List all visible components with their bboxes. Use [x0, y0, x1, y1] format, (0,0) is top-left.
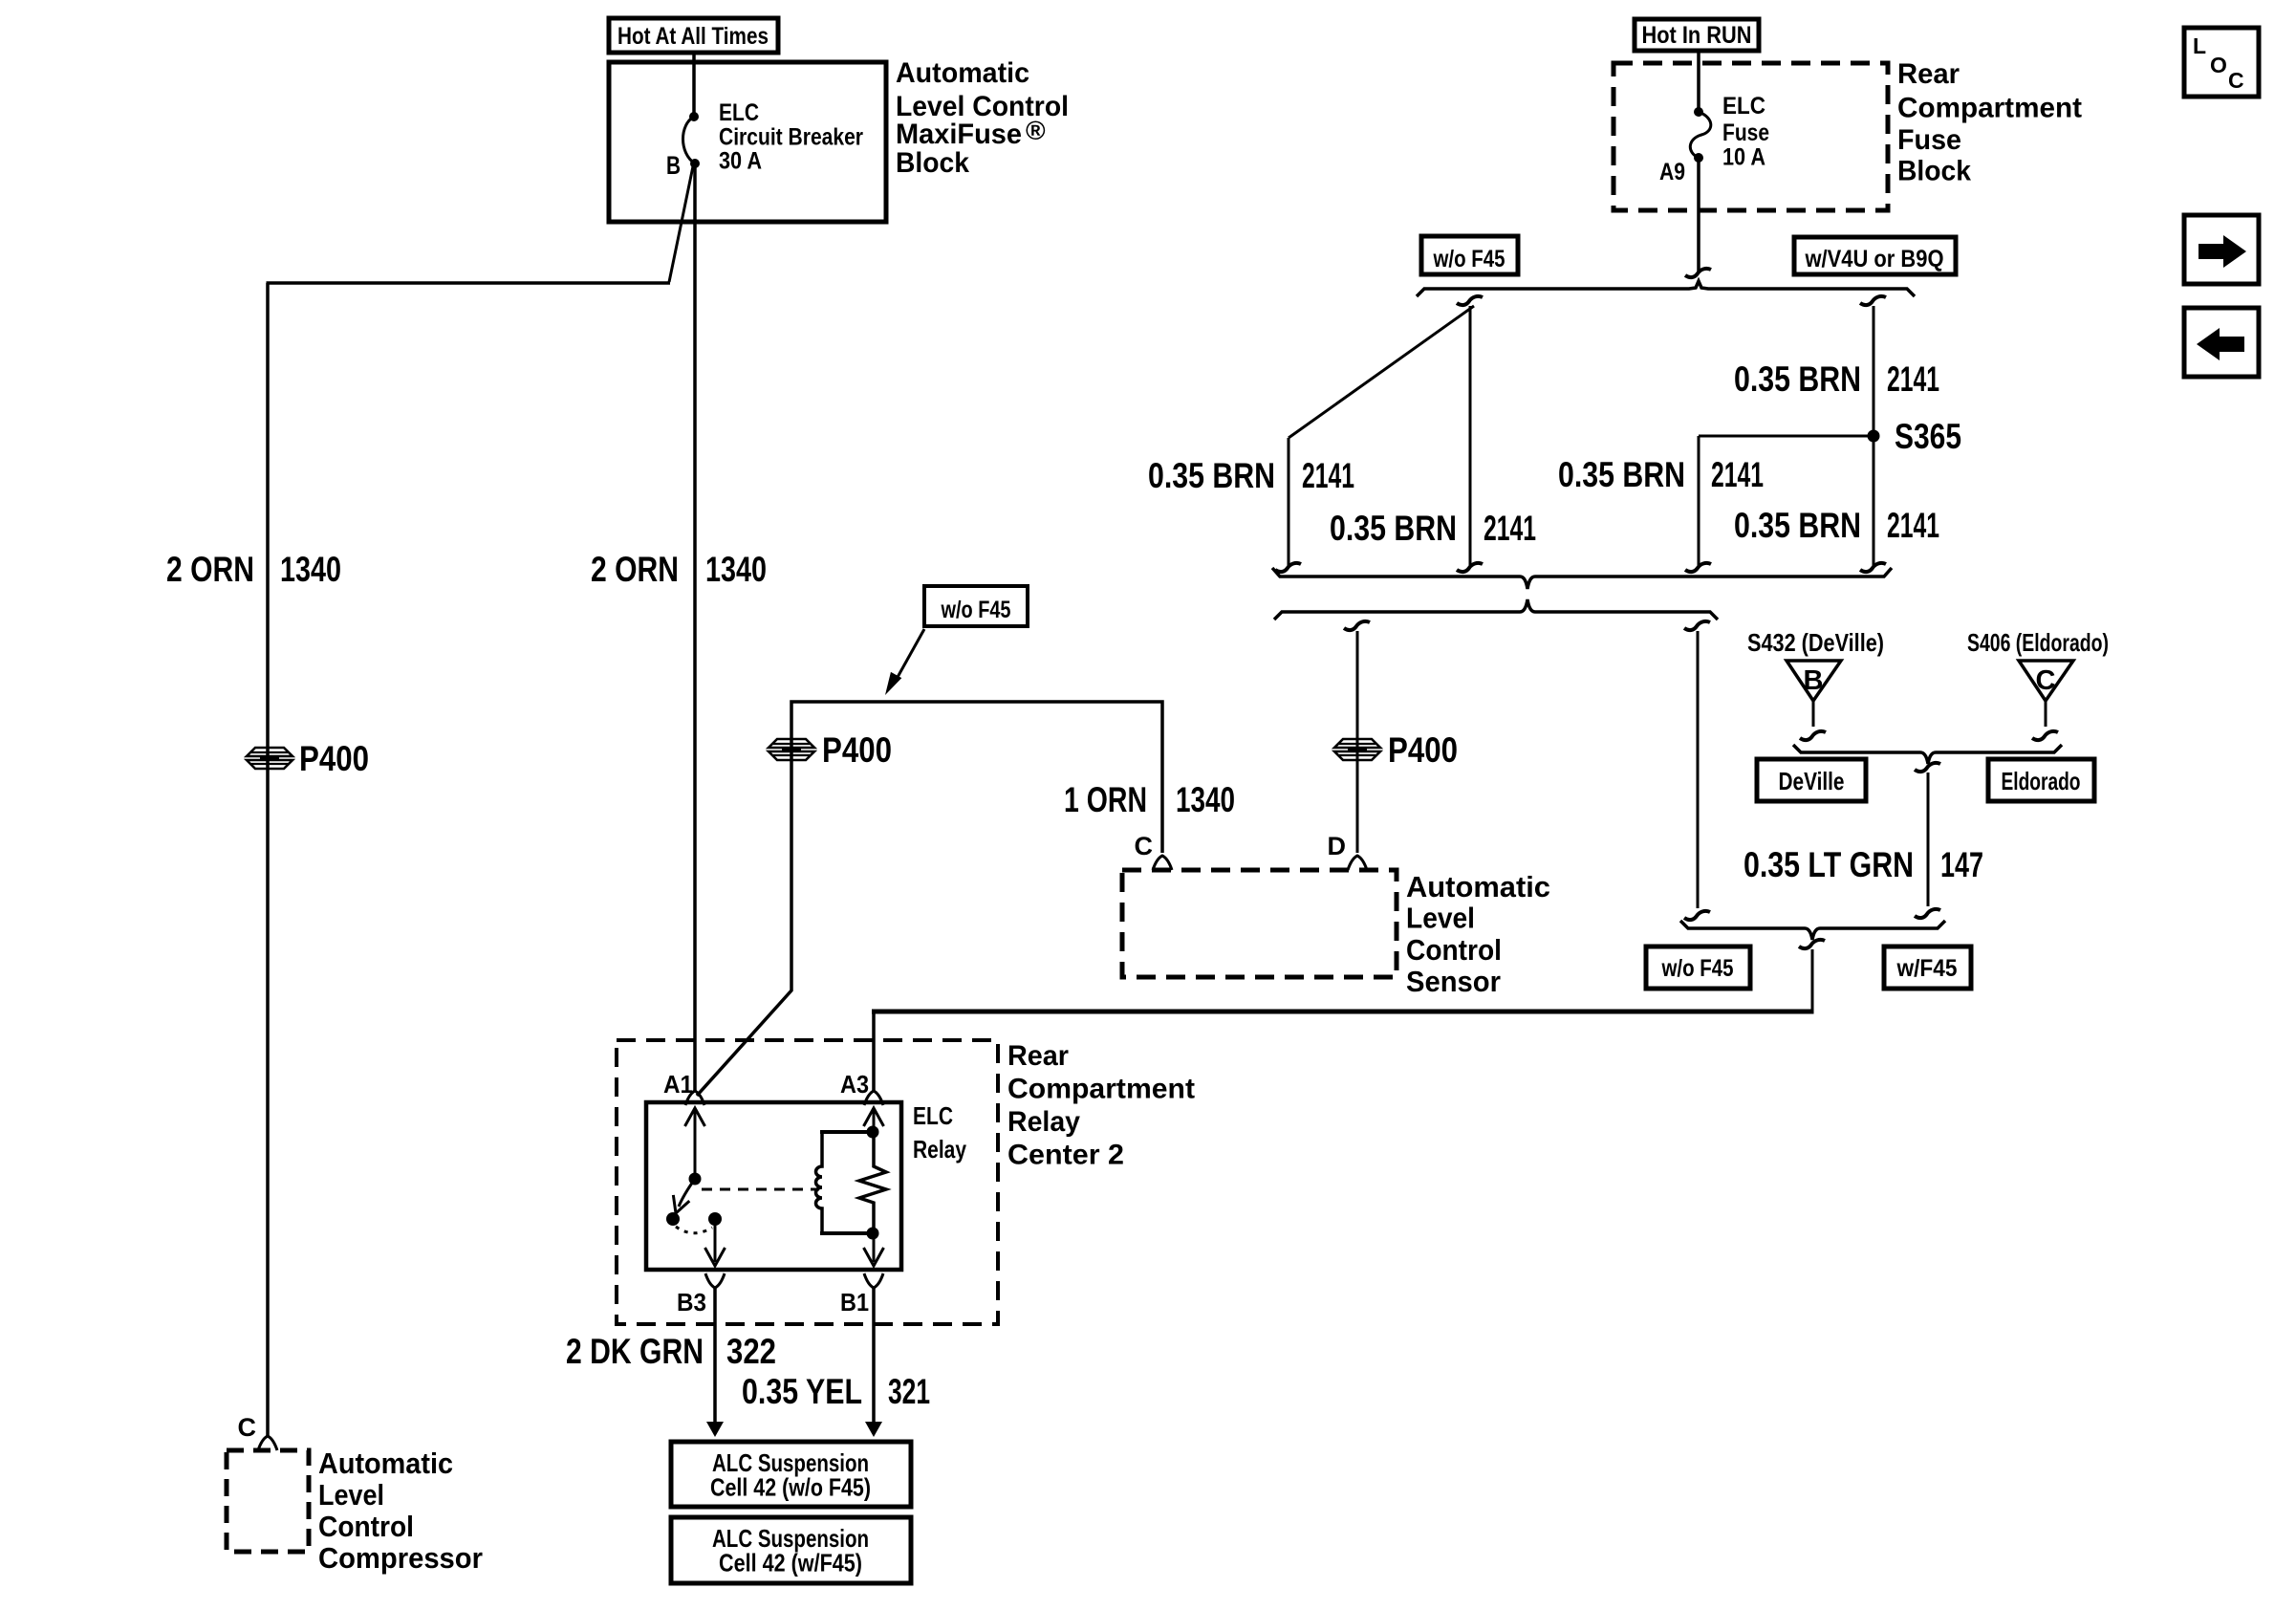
- svg-text:322: 322: [726, 1332, 776, 1371]
- svg-text:Fuse: Fuse: [1722, 120, 1769, 146]
- LOC legend box: [2184, 28, 2259, 97]
- option box w/o F45 (top): [1421, 236, 1518, 274]
- cell box ALC Suspension w/o F45: [671, 1442, 911, 1507]
- wire to sensor pin D: [1356, 631, 1359, 853]
- off-page arrow B1: [865, 1422, 882, 1437]
- svg-text:Compressor: Compressor: [318, 1541, 483, 1575]
- svg-text:2 ORN: 2 ORN: [591, 550, 679, 589]
- svg-text:ELC: ELC: [913, 1101, 953, 1130]
- wire end curl bottom (right option branch): [1684, 911, 1710, 920]
- wire long horizontal to relay A3: [872, 1010, 1814, 1014]
- wire end curl (triangle B): [1800, 731, 1826, 740]
- model box DeVille: [1757, 759, 1866, 801]
- svg-text:0.35 BRN: 0.35 BRN: [1330, 509, 1457, 548]
- nav arrow right: [2199, 235, 2246, 268]
- relay B1 arrowhead: [864, 1248, 884, 1266]
- wire end curl bottom (x1348): [1275, 563, 1301, 572]
- pin socket D (sensor): [1348, 856, 1367, 870]
- svg-text:DeVille: DeVille: [1779, 767, 1845, 795]
- svg-text:P400: P400: [1388, 730, 1458, 770]
- connector P400 on w/o F45 branch: [769, 739, 814, 760]
- wire end curl (triangle C): [2032, 731, 2058, 740]
- svg-text:2141: 2141: [1711, 455, 1764, 494]
- wire down to relay A3: [872, 1012, 876, 1091]
- wire LT GRN: [1927, 772, 1930, 906]
- option box w/V4U or B9Q: [1794, 237, 1956, 274]
- wire left vertical to compressor: [266, 283, 270, 1436]
- wire brown branch 2: [1288, 438, 1290, 566]
- svg-text:w/o F45: w/o F45: [1433, 246, 1505, 272]
- wire horizontal to left compressor branch: [267, 281, 671, 285]
- option box w/F45: [1884, 946, 1971, 989]
- svg-text:Relay: Relay: [913, 1135, 966, 1164]
- relay coil bottom node dot: [867, 1228, 879, 1240]
- svg-text:Compartment: Compartment: [1007, 1074, 1195, 1105]
- svg-text:1340: 1340: [705, 550, 767, 589]
- wire B1 to ALC cell: [872, 1288, 876, 1424]
- wire end curl bottom (lt grn): [1915, 909, 1940, 918]
- arrowhead to wire: [879, 672, 901, 698]
- power label box: Hot At All Times: [609, 18, 778, 53]
- svg-text:ELC: ELC: [1722, 93, 1765, 120]
- connector P400 on sensor wire: [1334, 739, 1380, 760]
- wire end curl bottom (x1960): [1860, 563, 1886, 572]
- svg-text:MaxiFuse: MaxiFuse: [896, 119, 1022, 150]
- relay coil frame bottom: [820, 1231, 874, 1235]
- relay A3 internal lead: [873, 1111, 876, 1132]
- relay A1 internal lead: [694, 1111, 697, 1179]
- wire end curl (right option branch): [1684, 621, 1710, 630]
- wire breaker B down to relay A1: [693, 163, 697, 1091]
- svg-text:L: L: [2193, 33, 2206, 58]
- svg-text:Cell 42 (w/F45): Cell 42 (w/F45): [719, 1549, 862, 1577]
- wire end curl bottom (x1777): [1685, 563, 1711, 572]
- svg-text:0.35 YEL: 0.35 YEL: [742, 1372, 862, 1411]
- wire from Hot At All Times to circuit breaker: [692, 53, 696, 117]
- svg-text:2 DK GRN: 2 DK GRN: [566, 1332, 704, 1371]
- svg-text:2 ORN: 2 ORN: [166, 550, 254, 589]
- svg-text:A1: A1: [663, 1070, 693, 1099]
- off-page arrow B3: [706, 1422, 724, 1437]
- wire brown branch 1: [1469, 306, 1472, 566]
- svg-text:0.35 LT GRN: 0.35 LT GRN: [1744, 845, 1914, 884]
- wire breaker B diagonal to left branch: [669, 166, 693, 282]
- nav box arrow left: [2184, 308, 2259, 377]
- circuit breaker CB element: [683, 117, 696, 163]
- svg-text:B1: B1: [840, 1288, 869, 1316]
- svg-text:S406 (Eldorado): S406 (Eldorado): [1967, 628, 2109, 657]
- wire end curl bottom (x1538): [1457, 563, 1483, 572]
- svg-text:Rear: Rear: [1007, 1040, 1069, 1072]
- svg-text:B: B: [666, 151, 681, 180]
- wire end curl (relay feed): [1799, 940, 1825, 948]
- pin socket A3: [864, 1091, 883, 1105]
- svg-text:Level: Level: [318, 1478, 384, 1512]
- relay B1 internal lead: [873, 1233, 876, 1262]
- fuse ELC element: [1690, 112, 1711, 158]
- fuse bottom terminal dot A9: [1694, 153, 1703, 163]
- svg-text:Eldorado: Eldorado: [2002, 767, 2081, 795]
- fuse top terminal dot: [1694, 107, 1703, 117]
- pin socket B3: [705, 1273, 725, 1288]
- svg-text:10 A: 10 A: [1722, 144, 1765, 171]
- svg-text:Fuse: Fuse: [1897, 124, 1961, 156]
- svg-text:147: 147: [1940, 845, 1983, 884]
- split brace under fuse wire: [1417, 281, 1915, 296]
- svg-text:O: O: [2210, 53, 2227, 77]
- svg-text:Hot At All Times: Hot At All Times: [617, 23, 769, 50]
- svg-text:P400: P400: [822, 730, 892, 770]
- svg-text:2141: 2141: [1302, 456, 1354, 495]
- svg-text:D: D: [1328, 832, 1347, 860]
- off-page triangle connector B: [1787, 661, 1841, 701]
- svg-text:S432 (DeVille): S432 (DeVille): [1747, 628, 1884, 657]
- gather brace to relay feed: [1680, 921, 1945, 940]
- svg-text:Hot In RUN: Hot In RUN: [1642, 22, 1752, 49]
- relay B3 arrowhead: [705, 1248, 726, 1266]
- svg-text:Center 2: Center 2: [1007, 1140, 1124, 1171]
- svg-text:Rear: Rear: [1897, 58, 1960, 90]
- svg-text:B3: B3: [677, 1288, 706, 1316]
- pin socket C (sensor): [1153, 856, 1172, 870]
- connector P400 on left wire: [247, 748, 292, 769]
- svg-text:30 A: 30 A: [719, 148, 762, 175]
- svg-text:0.35 BRN: 0.35 BRN: [1734, 359, 1861, 399]
- relay switch pivot dot: [689, 1173, 702, 1186]
- Rear Compartment Fuse Block dashed outline: [1614, 63, 1888, 210]
- svg-text:C: C: [2036, 665, 2056, 696]
- option box w/o F45 (center): [924, 586, 1028, 626]
- svg-text:Control: Control: [318, 1510, 414, 1543]
- relay coil top node dot: [867, 1126, 879, 1139]
- Automatic Level Control Sensor dashed outline: [1122, 870, 1397, 977]
- svg-text:Relay: Relay: [1007, 1106, 1080, 1138]
- svg-text:A9: A9: [1659, 159, 1685, 185]
- svg-text:B: B: [1804, 665, 1824, 696]
- svg-text:2141: 2141: [1484, 509, 1536, 548]
- svg-text:w/F45: w/F45: [1896, 955, 1958, 982]
- svg-text:0.35 BRN: 0.35 BRN: [1734, 506, 1861, 545]
- gather brace of four branches: [1272, 568, 1892, 589]
- option box w/o F45 (lower): [1646, 946, 1750, 989]
- relay A3 arrowhead: [864, 1108, 884, 1126]
- relay contact dot right: [708, 1212, 722, 1226]
- relay contact dot left: [666, 1212, 680, 1226]
- wire end curl (branch x1538): [1457, 296, 1483, 305]
- svg-text:Block: Block: [1897, 156, 1971, 187]
- wire end curl (branch x1960): [1860, 296, 1886, 305]
- svg-text:®: ®: [1026, 116, 1046, 145]
- svg-text:Sensor: Sensor: [1406, 965, 1501, 998]
- relay resistor: [859, 1132, 886, 1233]
- svg-text:0.35 BRN: 0.35 BRN: [1148, 456, 1275, 495]
- wire w/o F45 branch to sensor pin C: [697, 702, 1162, 1096]
- splice S365 dot: [1868, 430, 1880, 443]
- svg-text:C: C: [1135, 832, 1154, 860]
- relay switch arm arrowhead: [668, 1195, 690, 1216]
- cell box ALC Suspension w/F45: [671, 1517, 911, 1583]
- arrow from w/o F45 box: [897, 629, 924, 679]
- wire diagonal branch to x1348: [1289, 306, 1474, 438]
- svg-text:ELC: ELC: [719, 99, 759, 126]
- relay A1 arrowhead: [685, 1108, 705, 1126]
- relay switch arm: [679, 1179, 695, 1207]
- relay linkage dashed line: [702, 1188, 819, 1191]
- svg-text:2141: 2141: [1887, 359, 1939, 399]
- svg-text:1 ORN: 1 ORN: [1064, 780, 1147, 819]
- svg-text:C: C: [2228, 68, 2244, 93]
- wire from triangle C: [2045, 701, 2047, 727]
- wire fuse A9 down to option brace: [1697, 158, 1700, 272]
- svg-text:Circuit Breaker: Circuit Breaker: [719, 124, 863, 151]
- wire end curl (sensor branch): [1344, 621, 1370, 630]
- pin socket C (compressor): [258, 1436, 277, 1450]
- split brace to sensor branches: [1274, 599, 1718, 620]
- svg-text:2141: 2141: [1887, 506, 1939, 545]
- nav box arrow right: [2184, 215, 2259, 284]
- svg-text:Automatic: Automatic: [896, 57, 1029, 89]
- svg-text:w/V4U or B9Q: w/V4U or B9Q: [1805, 246, 1944, 272]
- relay coil left side with windings: [816, 1132, 823, 1233]
- svg-text:C: C: [238, 1413, 257, 1442]
- wire B3 to ALC cell: [713, 1288, 717, 1424]
- model box Eldorado: [1988, 759, 2094, 801]
- svg-text:0.35 BRN: 0.35 BRN: [1558, 455, 1685, 494]
- svg-text:w/o F45: w/o F45: [1661, 955, 1734, 982]
- pin socket B1: [864, 1273, 883, 1288]
- wire from S365 left: [1699, 435, 1871, 438]
- svg-text:A3: A3: [840, 1070, 869, 1099]
- svg-text:Cell 42 (w/o F45): Cell 42 (w/o F45): [710, 1473, 871, 1502]
- wire right option branch: [1697, 631, 1700, 908]
- wire relay feed down: [1811, 949, 1814, 1012]
- nav arrow left: [2197, 328, 2244, 360]
- off-page triangle connector C: [2019, 661, 2073, 701]
- ELC relay box outline: [646, 1102, 901, 1270]
- wire brown branch 3: [1873, 306, 1875, 566]
- relay linkage dashed arc: [676, 1227, 712, 1233]
- svg-text:Automatic: Automatic: [1406, 870, 1550, 903]
- wire end curl (lt grn wire): [1915, 763, 1940, 772]
- relay coil frame top: [820, 1130, 874, 1134]
- wire brown branch 4: [1698, 436, 1700, 566]
- svg-text:P400: P400: [299, 739, 369, 778]
- circuit breaker CB bottom terminal dot B: [690, 159, 700, 168]
- svg-text:S365: S365: [1895, 417, 1961, 456]
- Automatic Level Control MaxiFuse Block outline: [609, 62, 886, 222]
- wire from triangle B: [1812, 701, 1815, 727]
- wire end curl at A9 branch point: [1685, 269, 1711, 277]
- svg-text:Level: Level: [1406, 902, 1475, 935]
- svg-text:Control: Control: [1406, 933, 1502, 967]
- svg-text:1340: 1340: [280, 550, 341, 589]
- relay B3 internal lead: [714, 1219, 717, 1262]
- svg-text:1340: 1340: [1176, 780, 1235, 819]
- svg-text:Block: Block: [896, 147, 969, 179]
- svg-text:Automatic: Automatic: [318, 1447, 453, 1480]
- svg-text:321: 321: [888, 1372, 930, 1411]
- circuit breaker CB top terminal dot: [689, 112, 699, 121]
- power label box: Hot In RUN: [1635, 19, 1759, 51]
- pin socket A1: [685, 1091, 704, 1105]
- wire Hot In RUN to fuse: [1697, 51, 1700, 112]
- gather brace DeVille/Eldorado: [1793, 745, 2062, 764]
- svg-text:Compartment: Compartment: [1897, 93, 2082, 124]
- Rear Compartment Relay Center 2 dashed outline: [617, 1040, 998, 1324]
- svg-text:w/o F45: w/o F45: [941, 597, 1011, 623]
- Automatic Level Control Compressor dashed outline: [227, 1450, 309, 1552]
